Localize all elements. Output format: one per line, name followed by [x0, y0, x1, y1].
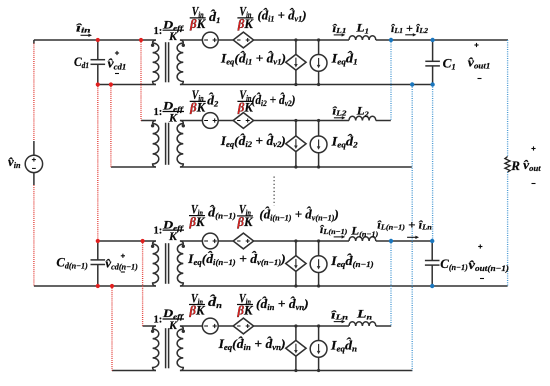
svg-text:βK: βK [236, 215, 254, 229]
svg-text:βK: βK [189, 101, 207, 115]
svg-text:K: K [168, 111, 178, 125]
svg-text:βK: βK [189, 17, 207, 31]
svg-text:βK: βK [237, 17, 255, 31]
svg-text:K: K [168, 29, 178, 43]
svg-text:K: K [168, 318, 178, 332]
svg-text:1:: 1: [154, 226, 163, 237]
svg-text:K: K [168, 229, 178, 243]
svg-text:R: R [510, 158, 520, 173]
svg-text:1:: 1: [154, 26, 163, 37]
svg-text:1:: 1: [154, 315, 163, 326]
svg-text:βK: βK [188, 304, 206, 318]
svg-text:βK: βK [236, 304, 254, 318]
svg-text:βK: βK [188, 215, 206, 229]
svg-text:1:: 1: [154, 107, 163, 118]
